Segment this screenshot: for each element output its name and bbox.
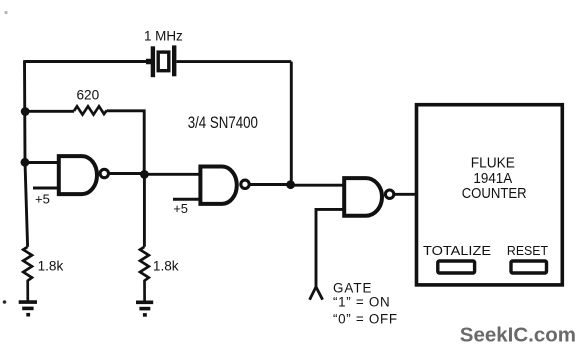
svg-text:TOTALIZE: TOTALIZE (423, 243, 491, 258)
button TOTALIZE (438, 261, 475, 273)
gate input arrow terminal (310, 287, 323, 300)
op NAND U1A (59, 156, 97, 194)
wire U1B output to node (249, 183, 291, 186)
wire top horizontal right of crystal (177, 60, 292, 63)
wire U1A out to U1B input (144, 173, 200, 176)
svg-text:1 MHz: 1 MHz (144, 29, 183, 44)
wire U1C input bottom gate (316, 209, 344, 287)
svg-text:1.8k: 1.8k (153, 259, 179, 274)
svg-text:COUNTER: COUNTER (462, 185, 527, 202)
crystal Y1 1 MHz (146, 45, 174, 77)
wire right vertical from top to NAND3 input node (290, 62, 293, 185)
svg-text:3/4 SN7400: 3/4 SN7400 (188, 114, 258, 132)
counter box FLUKE 1941A (417, 105, 563, 285)
wire U1A input bottom +5 (33, 187, 59, 190)
wire U1A input top (25, 161, 59, 164)
svg-text:1.8k: 1.8k (38, 259, 64, 274)
button RESET (511, 261, 547, 273)
svg-text:620: 620 (77, 87, 100, 102)
wire top horizontal left of crystal (25, 60, 152, 63)
node junction crystal feedback (286, 180, 295, 189)
ground GND1 (19, 302, 37, 315)
wire 620 right to drop (107, 111, 144, 175)
svg-text:+5: +5 (173, 201, 188, 216)
node junction U1A input (21, 158, 30, 167)
wire U1B input bottom +5 (173, 198, 200, 201)
wire 620 left (25, 110, 74, 113)
wire node to U1C input top (291, 184, 345, 187)
op NAND U1C (344, 178, 382, 216)
svg-text:+5: +5 (35, 192, 50, 207)
ground GND2 (136, 302, 153, 315)
svg-text:RESET: RESET (507, 243, 548, 258)
resistor R3 1.8k vertical second (140, 247, 149, 301)
svg-text:SeekIC.com: SeekIC.com (460, 323, 576, 346)
bubble U1C (385, 190, 393, 198)
bubble U1B (241, 180, 249, 188)
svg-text:“0” = OFF: “0” = OFF (333, 312, 398, 327)
wire U1C output to counter (394, 193, 416, 196)
node junction left rail / 620 (21, 107, 30, 116)
wire left rail vertical (25, 60, 28, 247)
bubble U1A (100, 169, 108, 177)
svg-text:“1” = ON: “1” = ON (333, 294, 390, 309)
resistor R2 1.8k vertical (23, 247, 32, 301)
node junction U1A output / 620 / 1.8k (140, 170, 149, 179)
op NAND U1B (200, 167, 236, 204)
wire U1A output (109, 172, 145, 175)
svg-text:GATE: GATE (333, 280, 372, 295)
wire 1.8k #2 drop (143, 174, 146, 246)
resistor R1 620 zigzag (74, 106, 107, 114)
